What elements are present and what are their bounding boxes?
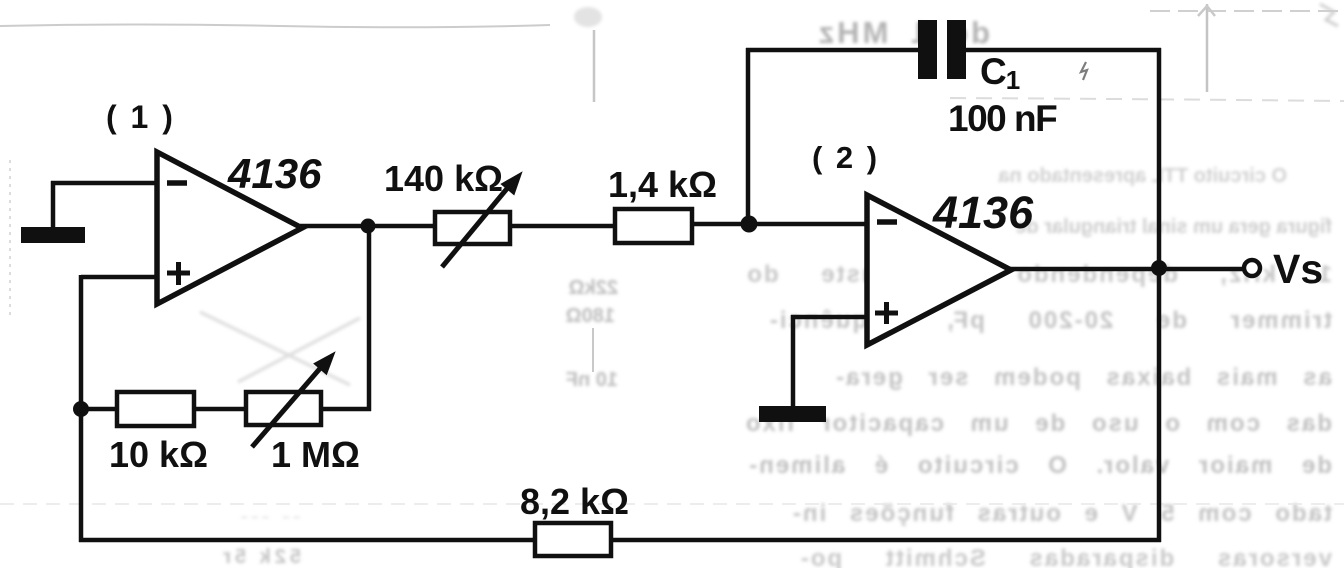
node: U2 minus input junction [741,216,758,233]
op-amp U2 plus tick [875,302,898,324]
wire cap feedback vertical [746,48,751,225]
wire op2 plus input horizontal [791,315,868,320]
svg-text:4136: 4136 [932,187,1034,238]
op-amp U2 minus tick [877,219,897,225]
svg-text:( 2 ): ( 2 ) [812,140,880,175]
bleed-through mirrored paragraph (back page) [744,165,1332,568]
wire op2 plus drop to ground [791,315,796,407]
svg-text:52k 5r: 52k 5r [219,546,301,568]
op-amp U1 (4136) triangle [157,152,302,304]
terminal Vs open circle [1244,260,1260,276]
wire op1 minus input horizontal [51,181,158,186]
svg-text:‾‾ ‾‾‾: ‾‾ ‾‾‾ [236,515,300,531]
op-amp U1 minus tick [167,180,187,186]
gray mark top right corner [1320,4,1338,26]
svg-text:das com o uso de um capacitor: das com o uso de um capacitor fixo [744,410,1332,437]
op-amp U2 (4136) triangle [867,195,1011,345]
bleed-through small gray fragments center [566,277,618,391]
capacitor C1 plates [918,20,937,79]
op-amp U1 plus tick [167,262,190,285]
wire bottom rail [79,538,1161,543]
svg-text:4136: 4136 [227,150,322,197]
faint diagonal bleed lines inside feedback loop [200,312,360,385]
svg-text:as mais baixas podem ser gera-: as mais baixas podem ser gera- [834,364,1332,391]
svg-text:versoras disparadas Schmitt po: versoras disparadas Schmitt po- [799,545,1332,568]
resistor 8,2k body [535,523,611,556]
svg-text:de maior valor. O circuito é a: de maior valor. O circuito é alimen- [747,452,1332,479]
resistor 1M (variable) body [246,392,321,425]
wire op1 plus input horizontal [81,275,158,280]
tiny dark mark near C1 [1081,62,1087,80]
svg-text:22kΩ: 22kΩ [569,277,618,299]
node: left feedback junction [73,401,89,417]
wire 140k to 1,4k [510,224,616,229]
svg-text:10 kΩ: 10 kΩ [109,434,208,475]
wire 1M to vertical [321,407,371,412]
MAIN CIRCUIT [51,48,1243,542]
resistor 140k (variable) body [435,212,510,244]
svg-text:Vs: Vs [1273,246,1323,292]
svg-text:1,4 kΩ: 1,4 kΩ [608,164,717,205]
svg-text:8,2 kΩ: 8,2 kΩ [520,481,629,522]
resistor 1,4k body [615,209,692,243]
ground symbol at U2 plus input [759,406,826,422]
wire feedback vertical from output node [367,226,372,411]
node: U2 output junction [1151,260,1167,276]
svg-text:100 nF: 100 nF [948,98,1057,139]
svg-text:( 1 ): ( 1 ) [106,99,175,135]
bleed-through mirrored caption near capacitor [816,15,990,50]
ground symbol at U1 minus input [21,227,85,243]
svg-text:O circuito TTL apresentado na: O circuito TTL apresentado na [998,165,1287,187]
wire 1,4k to op2 minus [691,222,867,227]
svg-text:140 kΩ: 140 kΩ [384,158,503,199]
svg-text:trimmer de 20-200 pF, frequênc: trimmer de 20-200 pF, frequênci- [768,307,1332,334]
gray blob top area [574,7,602,27]
wire between 10k and 1M [194,407,247,412]
wire left vertical rail [79,275,84,542]
wire op1 output [300,224,436,229]
svg-text:figura gera um sinal triangula: figura gera um sinal triangular de [1015,216,1332,238]
resistor 140k arrow [442,165,530,267]
node: U1 output junction [361,219,376,234]
wire right vertical rail [1157,48,1162,542]
bottom-left faint fragment [219,515,301,568]
svg-text:10 nF: 10 nF [566,369,618,391]
wire left node to 10k [81,407,118,412]
wire top rail right of capacitor [966,48,1161,53]
svg-text:1 MΩ: 1 MΩ [271,434,360,475]
resistor 1M arrow [252,345,342,447]
svg-text:180Ω: 180Ω [566,305,615,327]
wire op2 output to Vs [1010,267,1243,272]
resistor 10k body [117,392,194,426]
wire top rail left of capacitor [746,48,918,53]
wire op1 minus drop to ground [51,181,56,228]
